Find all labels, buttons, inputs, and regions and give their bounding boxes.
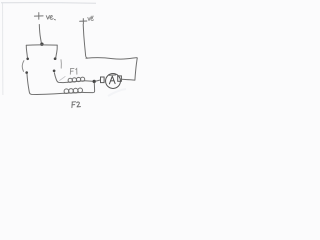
- wire: top rail between switch branches: [26, 44, 57, 46]
- overbar on right ve label: [91, 15, 94, 17]
- label +ve (left): handwritten v: [46, 15, 49, 19]
- label +ve (left): handwritten e: [50, 16, 53, 20]
- armature letter A with overbar: [109, 75, 115, 84]
- wire: F1 to node J2: [85, 80, 93, 82]
- wire: S1 bottom down and right to field coil F2: [27, 74, 64, 94]
- +ve supply terminal (left): [34, 13, 43, 20]
- brush (right) of armature: [118, 76, 122, 81]
- label +ve (right): handwritten e: [91, 17, 94, 20]
- wire: right riser up to top-right rail: [135, 58, 137, 80]
- inductor F2 (field coil): [64, 88, 84, 93]
- wire: right supply drop: [83, 24, 87, 58]
- wire: S2 bottom down and right to field coil F1: [54, 73, 68, 83]
- wire: right brush to right supply riser: [122, 78, 135, 81]
- node J2 (field to armature junction dot): [93, 80, 96, 83]
- +ve supply terminal (right): [80, 19, 87, 24]
- wire: node J2 to left brush: [96, 80, 100, 81]
- inductor F1 (field coil): [68, 77, 85, 82]
- switch S1 blade arc: [22, 61, 24, 72]
- switch S1 top contact dot: [26, 58, 29, 61]
- label comma after +ve (left): [54, 18, 56, 21]
- label F2: [72, 102, 81, 108]
- node J1 (supply junction dot): [40, 43, 43, 46]
- scan edge marks (unlabeled decorative): [1, 2, 96, 5]
- label F1: [70, 68, 77, 74]
- wire: top-right rail: [86, 58, 137, 60]
- switch S2 top contact dot: [54, 57, 57, 60]
- switch S2 bottom contact dot: [53, 69, 56, 72]
- wire: left branch drop to switch S1: [26, 45, 27, 57]
- switch S2 blade line: [60, 60, 62, 68]
- wire: node J2 down and left to F2 return: [84, 83, 95, 93]
- switch S1 bottom contact dot: [25, 71, 28, 74]
- wire: right branch drop to switch S2: [56, 45, 57, 58]
- stray pencil lead-in stroke at F1: [59, 76, 65, 80]
- wire: left supply drop to node J1: [39, 25, 41, 44]
- armature A (motor armature circle): [106, 74, 121, 89]
- brush (left) of armature: [101, 77, 105, 83]
- label +ve (right): handwritten v: [88, 17, 90, 20]
